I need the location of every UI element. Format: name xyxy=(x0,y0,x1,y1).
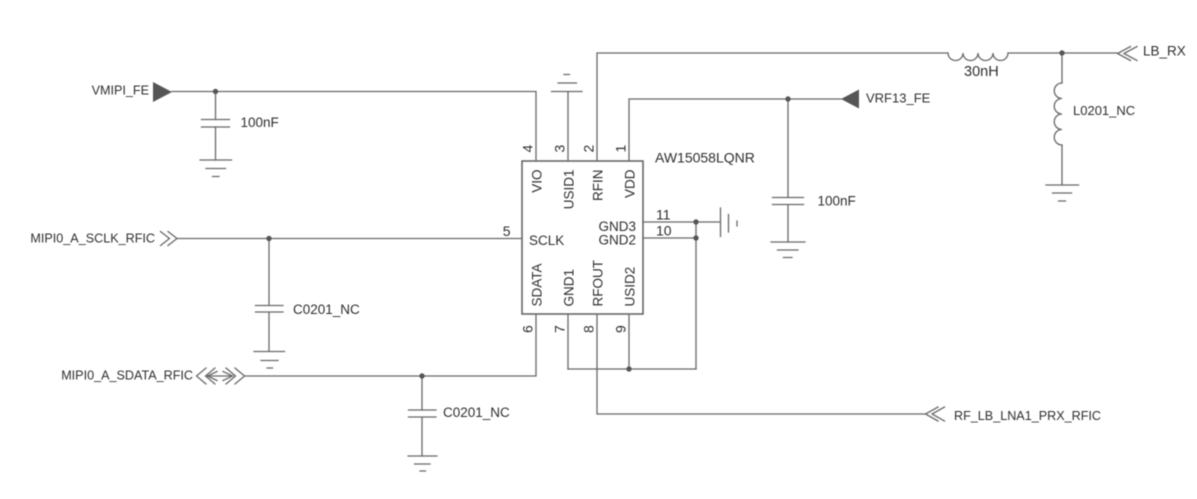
capacitor C0201_NC no2 plates xyxy=(409,410,437,417)
svg-text:4: 4 xyxy=(520,145,536,153)
node junction on SCLK wire xyxy=(266,236,271,241)
wire pin 1 VDD up and right to VRF13_FE xyxy=(629,99,841,161)
wire vertical gnd bus xyxy=(695,222,697,369)
wire cap C0201 no2 bottom lead xyxy=(421,418,423,457)
wire VMIPI_FE net: triangle to pin 4 xyxy=(172,92,536,162)
svg-text:11: 11 xyxy=(656,207,671,223)
svg-text:RF_LB_LNA1_PRX_RFIC: RF_LB_LNA1_PRX_RFIC xyxy=(954,409,1101,423)
wire pin 9 USID2 down xyxy=(628,314,630,369)
svg-text:USID2: USID2 xyxy=(623,267,638,307)
svg-text:RFIN: RFIN xyxy=(591,170,606,202)
wire SCLK net to pin 5 xyxy=(177,238,522,240)
inductor 30nH xyxy=(948,53,1008,61)
svg-text:6: 6 xyxy=(520,325,536,333)
svg-text:MIPI0_A_SDATA_RFIC: MIPI0_A_SDATA_RFIC xyxy=(61,369,193,383)
svg-text:VMIPI_FE: VMIPI_FE xyxy=(92,84,149,98)
capacitor 100nF no1 bottom lead xyxy=(215,127,217,160)
wire pin 11 GND3 to ground xyxy=(643,221,720,223)
wire pin 3 stub xyxy=(567,92,569,161)
svg-text:1: 1 xyxy=(613,145,629,153)
svg-text:10: 10 xyxy=(656,223,672,239)
inductor L0201_NC xyxy=(1054,83,1062,145)
svg-text:2: 2 xyxy=(581,145,597,153)
ground under 100nF no1 xyxy=(200,160,232,177)
wire pin 7 GND1 down xyxy=(567,314,569,369)
node junction on LB_RX wire xyxy=(1059,50,1064,55)
wire pin 8 RFOUT to RF_LB_LNA1_PRX_RFIC xyxy=(597,314,925,414)
svg-text:VIO: VIO xyxy=(530,170,545,193)
wire pin 2 RFIN up and right to inductor xyxy=(597,53,948,161)
ground under 100nF no2 xyxy=(771,242,805,258)
svg-text:LB_RX: LB_RX xyxy=(1143,44,1186,59)
wire horizontal gnd bus xyxy=(568,368,696,370)
svg-text:L0201_NC: L0201_NC xyxy=(1073,103,1135,118)
node junction on VMIPI wire xyxy=(213,89,218,94)
svg-text:USID1: USID1 xyxy=(562,170,577,210)
wire cap C0201 no2 top lead xyxy=(421,376,423,410)
wire inductor to LB_RX chevron xyxy=(1008,52,1117,54)
capacitor C0201_NC no1 plates xyxy=(256,306,284,313)
node junction GND2 xyxy=(693,235,698,240)
ground sideways at GND3 xyxy=(721,208,738,237)
port chevron in RF_LB_LNA1_PRX_RFIC xyxy=(926,407,945,421)
ground under C0201_NC no1 xyxy=(254,352,285,369)
svg-text:VDD: VDD xyxy=(623,169,638,198)
svg-text:SCLK: SCLK xyxy=(529,233,564,248)
svg-text:C0201_NC: C0201_NC xyxy=(443,405,510,420)
svg-text:9: 9 xyxy=(613,325,629,333)
svg-text:7: 7 xyxy=(552,325,568,333)
svg-text:GND1: GND1 xyxy=(562,269,577,307)
ground under L0201_NC xyxy=(1046,185,1079,201)
svg-text:AW15058LQNR: AW15058LQNR xyxy=(655,150,755,166)
svg-text:100nF: 100nF xyxy=(818,194,856,209)
wire cap C0201 no1 top lead xyxy=(268,239,270,306)
port triangle VMIPI_FE xyxy=(153,82,172,102)
capacitor 100nF no1 top lead xyxy=(215,92,217,120)
op-amp U1 AW15058LQNR body xyxy=(522,161,643,314)
wire cap C0201 no1 bottom lead xyxy=(268,313,270,352)
svg-text:C0201_NC: C0201_NC xyxy=(293,302,360,317)
svg-text:RFOUT: RFOUT xyxy=(591,260,606,307)
port triangle VRF13_FE xyxy=(841,90,859,109)
svg-text:100nF: 100nF xyxy=(241,115,279,130)
svg-text:8: 8 xyxy=(581,325,597,333)
port chevron in LB_RX xyxy=(1118,47,1138,61)
node junction on VRF13 wire xyxy=(785,96,790,101)
node junction GND3 xyxy=(693,219,698,224)
svg-text:3: 3 xyxy=(552,145,568,153)
svg-text:5: 5 xyxy=(503,223,511,239)
wire junction to L0201 coil xyxy=(1061,53,1063,83)
ground under C0201_NC no2 xyxy=(408,456,437,471)
wire pin 10 GND2 xyxy=(643,237,696,239)
wire SDATA net to pin 6 xyxy=(245,314,536,376)
node junction on SDATA wire xyxy=(419,373,424,378)
wire cap2 bottom lead xyxy=(787,205,789,242)
capacitor 100nF no2 plates xyxy=(773,198,804,205)
port chevron out MIPI0_A_SCLK_RFIC xyxy=(161,232,178,246)
port chevron bidir MIPI0_A_SDATA_RFIC xyxy=(197,368,216,384)
node junction pin9 bus xyxy=(626,366,631,371)
svg-text:SDATA: SDATA xyxy=(530,263,545,306)
wire L0201 coil to ground xyxy=(1061,145,1063,185)
wire cap2 top lead xyxy=(787,99,789,197)
svg-text:GND2: GND2 xyxy=(598,233,636,248)
ground flipped above pin 3 xyxy=(552,75,583,92)
capacitor 100nF no1 plates xyxy=(202,120,230,128)
svg-text:30nH: 30nH xyxy=(964,64,999,80)
svg-text:VRF13_FE: VRF13_FE xyxy=(866,91,931,106)
svg-text:MIPI0_A_SCLK_RFIC: MIPI0_A_SCLK_RFIC xyxy=(30,232,155,246)
